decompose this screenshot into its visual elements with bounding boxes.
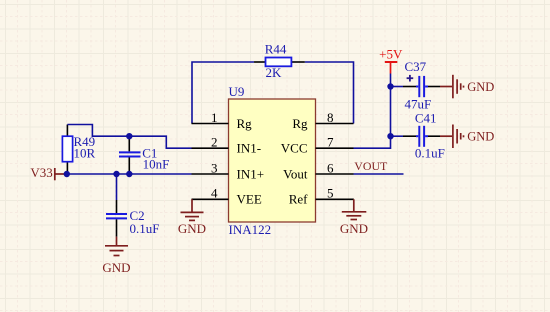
svg-text:GND: GND	[467, 80, 494, 94]
node C1 bottom junction	[126, 171, 132, 177]
svg-text:10nF: 10nF	[143, 157, 170, 172]
svg-text:GND: GND	[178, 221, 206, 236]
svg-text:INA122: INA122	[229, 222, 272, 237]
node C2 junction	[113, 171, 119, 177]
svg-text:GND: GND	[467, 130, 494, 144]
svg-text:+5V: +5V	[379, 47, 403, 62]
svg-text:0.1uF: 0.1uF	[130, 221, 160, 236]
svg-text:6: 6	[327, 160, 334, 175]
pin 3 IN1+	[192, 160, 265, 181]
node C41 junction	[387, 133, 393, 139]
svg-text:7: 7	[327, 135, 334, 150]
ground below C2	[102, 237, 130, 275]
svg-text:Ref: Ref	[289, 192, 308, 207]
wire VOUT	[354, 173, 404, 175]
pin 6 Vout	[283, 160, 353, 181]
op-amp U9 INA122 body	[229, 84, 316, 237]
wire Rg loop right (R44 to pin8)	[305, 62, 354, 124]
pin 4 VEE	[192, 186, 262, 207]
svg-text:Rg: Rg	[237, 116, 253, 131]
resistor R49	[62, 125, 95, 175]
svg-text:IN1-: IN1-	[237, 141, 262, 156]
node C1 top junction	[126, 133, 132, 139]
wire Rg loop left (pin1 to R44)	[192, 62, 254, 124]
node R49 bottom junction	[64, 171, 70, 177]
pin 8 Rg	[292, 110, 353, 131]
capacitor C41	[403, 110, 445, 160]
svg-text:5: 5	[327, 186, 334, 201]
capacitor C1	[119, 136, 169, 174]
svg-text:1: 1	[211, 110, 218, 125]
wire R49 top loop to IN1-	[67, 125, 191, 149]
svg-text:10R: 10R	[74, 145, 96, 160]
svg-text:2: 2	[211, 135, 218, 150]
node C37 junction	[387, 83, 393, 89]
wire to C41	[391, 135, 404, 137]
power port +5V	[379, 47, 403, 74]
svg-text:IN1+: IN1+	[237, 166, 265, 181]
svg-text:GND: GND	[340, 221, 368, 236]
pin 7 VCC	[281, 135, 354, 156]
svg-text:U9: U9	[229, 84, 245, 99]
svg-text:R44: R44	[265, 42, 287, 57]
svg-text:Vout: Vout	[283, 166, 308, 181]
resistor R44	[254, 42, 305, 80]
wire to C37	[391, 86, 404, 88]
svg-text:4: 4	[211, 186, 218, 201]
svg-text:0.1uF: 0.1uF	[415, 146, 445, 161]
svg-text:VCC: VCC	[281, 141, 308, 156]
wire to C2	[116, 174, 118, 200]
ground right of C41	[440, 125, 494, 149]
svg-text:V33: V33	[30, 165, 52, 180]
pin 1 Rg	[192, 110, 253, 131]
capacitor C37 (polarized)	[403, 59, 440, 112]
svg-text:C41: C41	[415, 110, 437, 125]
wire V33 rail to IN1+	[67, 173, 192, 175]
ground below pin 4 VEE	[178, 199, 206, 236]
ground right of C37	[440, 75, 494, 99]
svg-text:GND: GND	[102, 260, 130, 275]
pin 2 IN1-	[192, 135, 262, 156]
svg-text:VEE: VEE	[237, 192, 262, 207]
svg-text:C37: C37	[405, 59, 427, 74]
svg-text:3: 3	[211, 160, 218, 175]
svg-text:8: 8	[327, 110, 334, 125]
pin 5 Ref	[289, 186, 354, 207]
svg-text:2K: 2K	[266, 65, 283, 80]
wire +5V rail to VCC	[354, 74, 391, 149]
svg-text:VOUT: VOUT	[354, 159, 388, 173]
capacitor C2	[106, 200, 159, 237]
svg-text:Rg: Rg	[292, 116, 308, 131]
ground below pin 5 Ref	[340, 199, 368, 236]
power port V33	[30, 165, 66, 180]
